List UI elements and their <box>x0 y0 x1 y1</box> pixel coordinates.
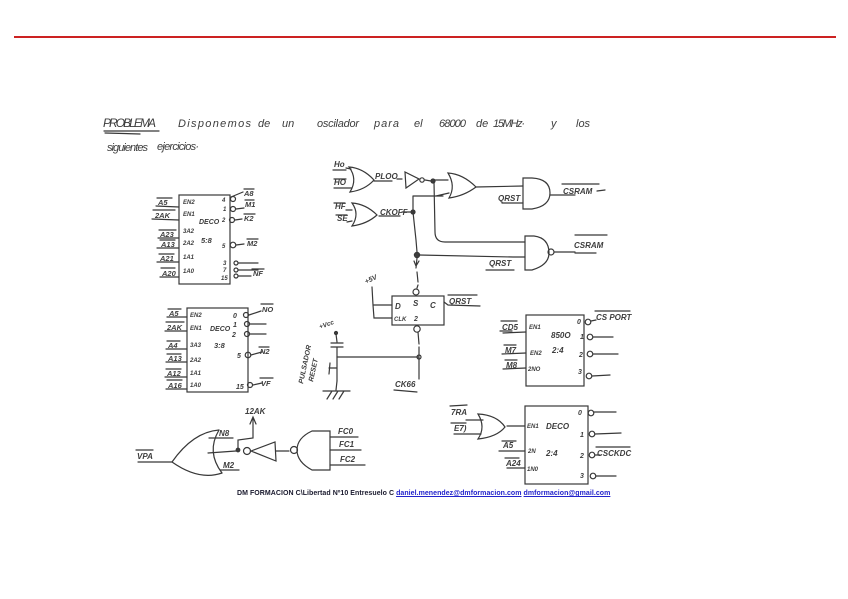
svg-text:1A1: 1A1 <box>183 255 195 261</box>
svg-text:2:4: 2:4 <box>545 449 558 458</box>
svg-text:N8: N8 <box>219 429 230 438</box>
svg-text:FC1: FC1 <box>339 440 355 449</box>
svg-text:2: 2 <box>221 218 226 224</box>
svg-text:EN1: EN1 <box>529 325 541 331</box>
svg-text:1A0: 1A0 <box>183 269 195 275</box>
svg-text:CLK: CLK <box>394 317 407 323</box>
svg-text:0: 0 <box>578 410 582 417</box>
svg-text:CSRAM: CSRAM <box>563 187 593 196</box>
svg-text:EN1: EN1 <box>183 212 195 218</box>
svg-text:3A2: 3A2 <box>183 229 195 235</box>
svg-text:VPA: VPA <box>137 452 153 461</box>
svg-text:A5: A5 <box>502 441 514 450</box>
svg-text:de: de <box>258 118 270 130</box>
svg-text:2A2: 2A2 <box>189 358 202 364</box>
svg-text:1: 1 <box>580 334 584 341</box>
svg-text:DECO: DECO <box>199 219 220 226</box>
svg-text:PLOO: PLOO <box>375 172 398 181</box>
svg-text:+Vcc: +Vcc <box>318 319 335 331</box>
svg-text:CSRAM: CSRAM <box>574 241 604 250</box>
svg-text:EN2: EN2 <box>530 351 542 357</box>
svg-text:D: D <box>395 302 401 311</box>
svg-text:850O: 850O <box>551 331 571 340</box>
svg-text:QRST: QRST <box>489 259 512 268</box>
svg-text:FC2: FC2 <box>340 455 356 464</box>
svg-text:EN2: EN2 <box>183 200 195 206</box>
svg-text:FC0: FC0 <box>338 427 354 436</box>
svg-text:DECO: DECO <box>546 422 570 431</box>
svg-text:y: y <box>550 118 558 130</box>
svg-text:VF: VF <box>261 379 271 388</box>
svg-text:S: S <box>413 299 419 308</box>
svg-text:1A0: 1A0 <box>190 383 202 389</box>
svg-text:EN1: EN1 <box>527 424 539 430</box>
svg-text:un: un <box>282 118 294 130</box>
svg-text:NF: NF <box>253 269 263 278</box>
svg-text:QRST: QRST <box>498 194 521 203</box>
svg-text:2NO: 2NO <box>527 367 541 373</box>
svg-text:2: 2 <box>413 316 418 323</box>
svg-text:E7): E7) <box>454 424 467 433</box>
svg-text:CSCKDC: CSCKDC <box>597 449 631 458</box>
svg-text:siguientes: siguientes <box>107 142 149 154</box>
svg-text:+5V: +5V <box>364 274 380 286</box>
svg-text:NO: NO <box>262 305 273 314</box>
svg-text:M2: M2 <box>247 239 258 248</box>
svg-text:DECO: DECO <box>210 326 231 333</box>
svg-text:5: 5 <box>222 244 226 250</box>
svg-text:3: 3 <box>223 261 227 267</box>
svg-text:oscilador: oscilador <box>317 118 360 130</box>
svg-text:1A1: 1A1 <box>190 371 202 377</box>
svg-text:K2: K2 <box>244 214 254 223</box>
svg-text:el: el <box>414 118 423 130</box>
svg-text:0: 0 <box>577 319 581 326</box>
svg-text:Disponemos: Disponemos <box>178 118 252 130</box>
svg-text:3:8: 3:8 <box>214 341 226 350</box>
svg-text:CK66: CK66 <box>395 380 416 389</box>
svg-text:1: 1 <box>580 432 584 439</box>
svg-text:5:8: 5:8 <box>201 236 213 245</box>
svg-text:12AK: 12AK <box>245 407 267 416</box>
svg-text:QRST: QRST <box>449 297 472 306</box>
svg-text:C: C <box>430 301 436 310</box>
svg-text:PROBLEMA: PROBLEMA <box>103 116 156 130</box>
svg-text:Ho: Ho <box>334 160 345 169</box>
svg-text:2:4: 2:4 <box>551 346 564 355</box>
svg-text:N2: N2 <box>260 347 270 356</box>
svg-text:EN2: EN2 <box>190 313 202 319</box>
svg-text:2: 2 <box>579 453 584 460</box>
svg-text:1N0: 1N0 <box>527 467 539 473</box>
svg-text:2: 2 <box>231 332 236 339</box>
svg-text:5: 5 <box>237 353 241 360</box>
svg-text:CS PORT: CS PORT <box>596 313 633 322</box>
svg-text:A8: A8 <box>243 189 254 198</box>
svg-text:1: 1 <box>233 322 237 329</box>
svg-text:EN1: EN1 <box>190 326 202 332</box>
svg-text:15: 15 <box>236 384 244 391</box>
svg-text:3: 3 <box>580 473 584 480</box>
svg-text:3: 3 <box>578 369 582 376</box>
svg-text:7: 7 <box>223 268 227 274</box>
svg-text:para: para <box>373 118 399 130</box>
svg-text:3A3: 3A3 <box>190 343 202 349</box>
svg-text:2A2: 2A2 <box>182 241 195 247</box>
svg-text:M1: M1 <box>245 200 255 209</box>
svg-text:15: 15 <box>221 276 228 282</box>
svg-text:7RA: 7RA <box>451 408 467 417</box>
svg-text:los: los <box>576 118 591 130</box>
svg-text:ejercicios·: ejercicios· <box>157 141 199 153</box>
svg-text:de: de <box>476 118 488 130</box>
svg-text:2N: 2N <box>527 449 536 455</box>
svg-text:4: 4 <box>221 198 226 204</box>
svg-text:M2: M2 <box>223 461 235 470</box>
svg-text:0: 0 <box>233 313 237 320</box>
svg-text:15MHz·: 15MHz· <box>493 118 525 130</box>
svg-text:1: 1 <box>223 207 227 213</box>
svg-text:A24: A24 <box>505 459 521 468</box>
svg-text:68000: 68000 <box>439 118 467 130</box>
svg-text:2: 2 <box>578 352 583 359</box>
